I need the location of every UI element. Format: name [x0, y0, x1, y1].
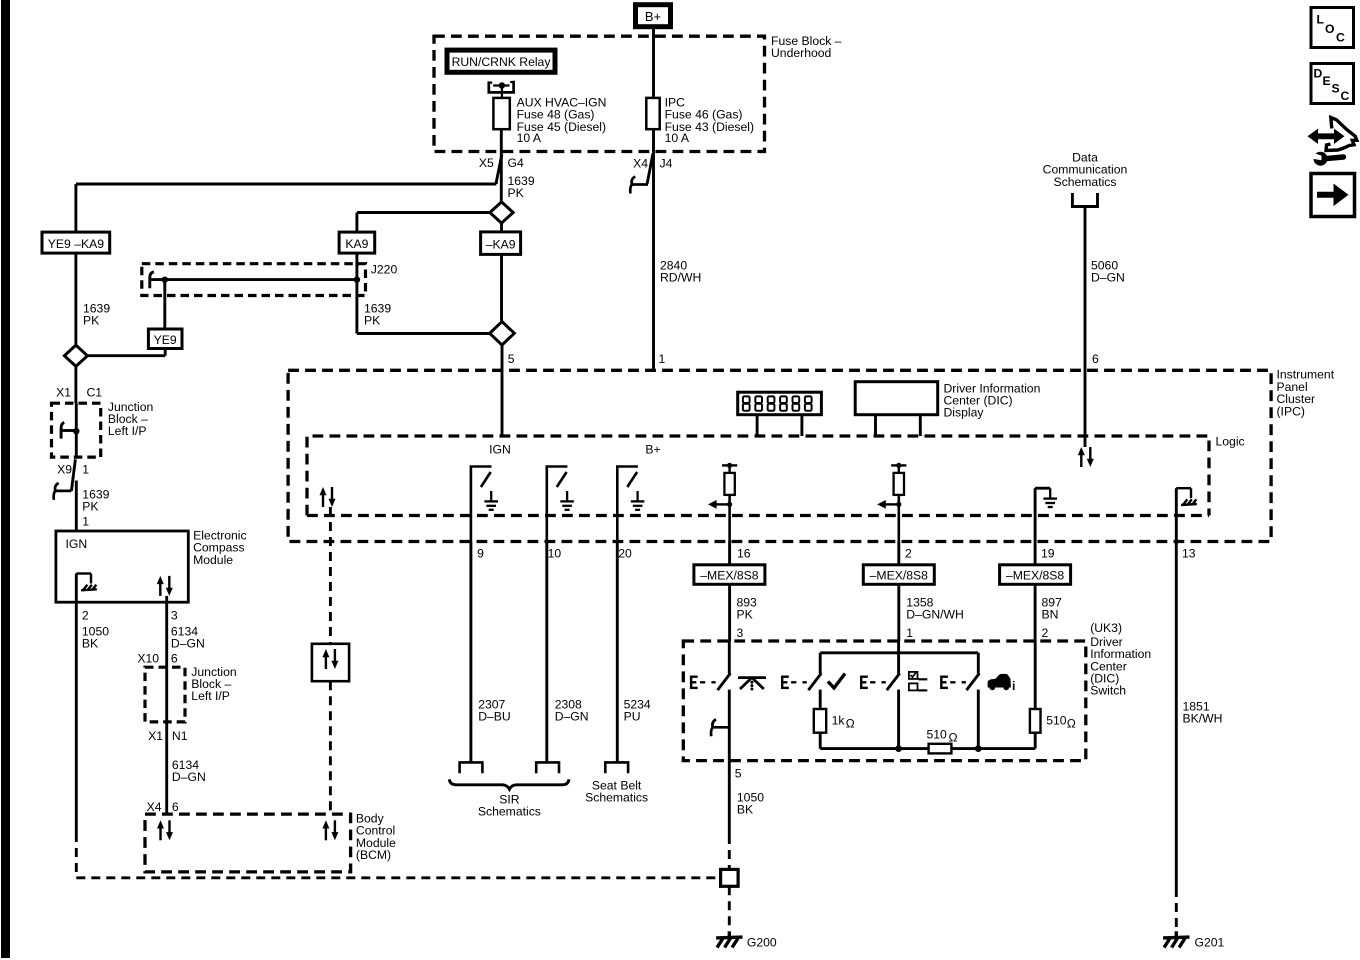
svg-text:PU: PU — [624, 710, 641, 724]
svg-text:RD/WH: RD/WH — [660, 271, 701, 285]
svg-text:IGN: IGN — [66, 537, 88, 551]
svg-text:(IPC): (IPC) — [1277, 404, 1305, 418]
svg-text:D: D — [1314, 67, 1323, 81]
svg-text:BK: BK — [737, 803, 753, 817]
svg-text:Display: Display — [944, 406, 985, 420]
svg-text:1: 1 — [906, 626, 913, 640]
svg-text:3: 3 — [737, 626, 744, 640]
svg-text:BK: BK — [82, 637, 98, 651]
svg-text:Schematics: Schematics — [585, 791, 648, 805]
svg-text:N1: N1 — [172, 729, 188, 743]
svg-text:G201: G201 — [1195, 936, 1225, 950]
svg-text:–MEX/8S8: –MEX/8S8 — [700, 569, 758, 583]
svg-text:Switch: Switch — [1090, 684, 1126, 698]
svg-text:6: 6 — [1092, 352, 1099, 366]
svg-text:L: L — [1317, 13, 1325, 27]
svg-text:PK: PK — [508, 186, 524, 200]
svg-text:2: 2 — [905, 547, 912, 561]
svg-text:C: C — [1341, 89, 1350, 103]
svg-text:1: 1 — [659, 352, 666, 366]
svg-text:X1: X1 — [148, 729, 163, 743]
svg-text:PK: PK — [82, 500, 98, 514]
svg-text:C: C — [1336, 31, 1345, 45]
svg-text:D–GN: D–GN — [172, 770, 206, 784]
svg-text:Left I/P: Left I/P — [191, 689, 230, 703]
svg-text:510: 510 — [927, 728, 948, 742]
svg-text:Left I/P: Left I/P — [108, 424, 147, 438]
svg-text:B+: B+ — [645, 9, 661, 24]
svg-text:Ω: Ω — [949, 731, 958, 745]
svg-text:13: 13 — [1182, 547, 1196, 561]
svg-text:i: i — [1012, 679, 1015, 693]
svg-text:C1: C1 — [87, 386, 103, 400]
svg-text:510: 510 — [1046, 714, 1067, 728]
svg-text:X4: X4 — [147, 800, 162, 814]
svg-text:6: 6 — [172, 800, 179, 814]
svg-text:2: 2 — [82, 608, 89, 622]
svg-text:J220: J220 — [371, 263, 398, 277]
svg-text:YE9 –KA9: YE9 –KA9 — [48, 237, 104, 251]
svg-text:9: 9 — [477, 547, 484, 561]
svg-text:X4: X4 — [633, 157, 648, 171]
svg-text:J4: J4 — [660, 157, 673, 171]
svg-text:BK/WH: BK/WH — [1183, 712, 1223, 726]
svg-text:RUN/CRNK Relay: RUN/CRNK Relay — [452, 55, 552, 69]
svg-text:1: 1 — [82, 463, 89, 477]
svg-text:B+: B+ — [645, 443, 660, 457]
svg-text:PK: PK — [83, 314, 99, 328]
svg-text:D–GN: D–GN — [555, 710, 589, 724]
svg-text:6: 6 — [171, 652, 178, 666]
svg-text:Schematics: Schematics — [1054, 175, 1117, 189]
svg-text:19: 19 — [1041, 547, 1055, 561]
svg-text:E: E — [1323, 74, 1331, 88]
svg-text:–MEX/8S8: –MEX/8S8 — [1006, 569, 1064, 583]
svg-text:O: O — [1325, 22, 1334, 36]
svg-text:10: 10 — [548, 547, 562, 561]
svg-text:2: 2 — [1042, 626, 1049, 640]
svg-text:3: 3 — [171, 608, 178, 622]
svg-text:PK: PK — [737, 608, 753, 622]
svg-text:(UK3): (UK3) — [1090, 621, 1122, 635]
svg-text:D–BU: D–BU — [478, 710, 511, 724]
svg-text:KA9: KA9 — [345, 237, 368, 251]
svg-text:G200: G200 — [747, 936, 777, 950]
svg-text:D–GN: D–GN — [1091, 271, 1125, 285]
svg-text:X1: X1 — [56, 386, 71, 400]
svg-text:(BCM): (BCM) — [356, 848, 391, 862]
svg-text:BN: BN — [1042, 608, 1059, 622]
svg-text:–KA9: –KA9 — [486, 238, 516, 252]
svg-text:S: S — [1332, 82, 1340, 96]
svg-text:5: 5 — [735, 767, 742, 781]
svg-text:Module: Module — [193, 553, 233, 567]
svg-text:16: 16 — [737, 547, 751, 561]
svg-text:X9: X9 — [57, 463, 72, 477]
svg-text:20: 20 — [618, 547, 632, 561]
svg-text:Ω: Ω — [1067, 717, 1076, 731]
svg-text:G4: G4 — [508, 156, 524, 170]
svg-text:Schematics: Schematics — [478, 805, 541, 819]
svg-text:1: 1 — [82, 514, 89, 528]
svg-text:PK: PK — [364, 314, 380, 328]
svg-text:D–GN: D–GN — [171, 637, 205, 651]
svg-text:10 A: 10 A — [665, 131, 690, 145]
svg-text:YE9: YE9 — [154, 333, 177, 347]
svg-text:IGN: IGN — [489, 443, 511, 457]
svg-text:D–GN/WH: D–GN/WH — [906, 608, 964, 622]
svg-text:–MEX/8S8: –MEX/8S8 — [870, 569, 928, 583]
svg-text:Logic: Logic — [1216, 435, 1245, 449]
svg-text:Ω: Ω — [846, 717, 855, 731]
svg-text:X5: X5 — [479, 156, 494, 170]
svg-text:10 A: 10 A — [517, 131, 542, 145]
svg-text:5: 5 — [508, 352, 515, 366]
svg-text:X10: X10 — [137, 652, 159, 666]
svg-text:1k: 1k — [832, 714, 846, 728]
svg-text:Underhood: Underhood — [771, 46, 831, 60]
